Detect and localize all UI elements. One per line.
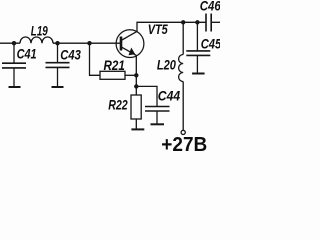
- wire: input bus left segment: [0, 42, 20, 44]
- svg-text:R22: R22: [108, 96, 128, 112]
- capacitor C41: [2, 43, 26, 87]
- resistor R22: [131, 95, 141, 119]
- wire: R21 to emitter node: [125, 74, 136, 76]
- node: C45 junction on top bus: [195, 20, 199, 24]
- wire: branch down to R21: [90, 43, 101, 75]
- capacitor C45: [186, 22, 210, 73]
- wire: R22 to ground: [135, 119, 137, 129]
- svg-text:C41: C41: [17, 45, 37, 61]
- ground under C41: [9, 86, 21, 88]
- transistor VT5: [116, 30, 144, 58]
- ground under C44: [151, 123, 165, 125]
- svg-text:VT5: VT5: [148, 21, 168, 37]
- svg-text:L19: L19: [31, 22, 48, 38]
- wire: bus from L19 to transistor base: [53, 42, 121, 44]
- node: R21/emitter junction: [134, 73, 138, 77]
- ground under C45: [192, 73, 205, 75]
- node: C44 branch junction: [134, 84, 138, 88]
- wire: collector up and to top bus: [137, 22, 206, 31]
- node: C43 junction: [55, 41, 59, 45]
- svg-text:R21: R21: [104, 57, 125, 73]
- resistor R21: [100, 71, 125, 79]
- node: base branch junction: [87, 41, 91, 45]
- wire: to C44: [136, 86, 157, 106]
- svg-text:C43: C43: [60, 46, 81, 62]
- capacitor C43: [46, 43, 70, 87]
- node: C41 junction: [12, 41, 16, 45]
- node: L20 junction on top bus: [181, 20, 185, 24]
- inductor L20: [179, 22, 184, 130]
- capacitor C46: [206, 14, 220, 32]
- svg-text:L20: L20: [157, 57, 176, 73]
- ground under C43: [52, 86, 64, 88]
- wire: emitter down: [135, 55, 137, 95]
- ground under R22: [131, 128, 144, 130]
- svg-text:C45: C45: [201, 35, 220, 51]
- inductor L19: [20, 37, 53, 43]
- capacitor C44: [145, 107, 170, 125]
- svg-text:C46: C46: [200, 0, 220, 14]
- svg-text:C44: C44: [158, 88, 180, 104]
- svg-text:+27В: +27В: [161, 134, 207, 154]
- terminal +27V: [181, 130, 185, 134]
